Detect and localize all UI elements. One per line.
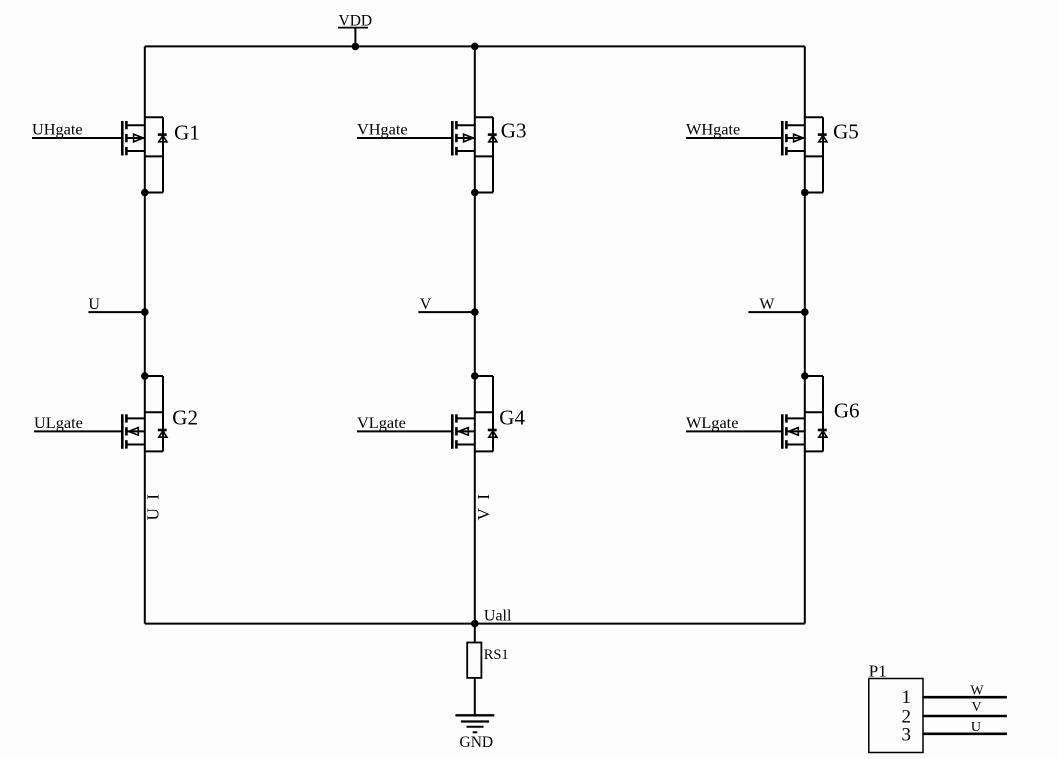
power VDD xyxy=(338,12,372,50)
svg-text:VLgate: VLgate xyxy=(357,413,406,432)
svg-text:V: V xyxy=(420,296,432,313)
node top rail / V column junction xyxy=(471,43,479,51)
transistor G3 xyxy=(452,117,497,196)
svg-text:ULgate: ULgate xyxy=(34,413,83,432)
svg-text:W: W xyxy=(759,296,775,313)
resistor RS1 xyxy=(467,643,481,678)
svg-text:G4: G4 xyxy=(499,405,525,429)
svg-text:U I: U I xyxy=(144,494,163,521)
wire RS1 to ground xyxy=(474,678,476,715)
connector P1 xyxy=(869,679,923,753)
wire Uall to RS1 xyxy=(474,624,476,643)
wire column U vertical xyxy=(144,46,146,623)
svg-text:G5: G5 xyxy=(833,119,859,143)
svg-text:VHgate: VHgate xyxy=(357,120,408,139)
svg-text:G3: G3 xyxy=(501,118,527,142)
wire bottom rail (Uall net) xyxy=(145,623,805,625)
svg-text:U: U xyxy=(971,720,981,735)
svg-text:WHgate: WHgate xyxy=(686,120,740,139)
wire VDD top rail xyxy=(145,45,805,47)
wire gate VLgate xyxy=(357,430,452,432)
wire column V vertical xyxy=(474,46,476,623)
node phase V junction xyxy=(471,308,479,316)
svg-text:WLgate: WLgate xyxy=(686,413,738,432)
svg-text:G1: G1 xyxy=(174,120,200,144)
svg-text:Uall: Uall xyxy=(484,607,512,624)
transistor G6 xyxy=(782,372,827,451)
svg-text:RS1: RS1 xyxy=(484,647,509,663)
node Uall junction xyxy=(471,620,479,628)
svg-text:G2: G2 xyxy=(172,405,198,429)
transistor G5 xyxy=(782,117,827,196)
wire gate VHgate xyxy=(357,137,452,139)
svg-text:1: 1 xyxy=(902,687,912,708)
wire column W vertical xyxy=(804,46,806,623)
wire gate ULgate xyxy=(34,430,122,432)
svg-text:3: 3 xyxy=(902,724,912,745)
wire pin 1 (W) xyxy=(923,696,1007,699)
node phase W junction xyxy=(801,308,809,316)
wire pin 2 (V) xyxy=(923,715,1007,718)
svg-text:U: U xyxy=(88,296,100,313)
svg-text:P1: P1 xyxy=(869,661,887,680)
wire phase U stub xyxy=(88,311,144,313)
svg-text:UHgate: UHgate xyxy=(32,120,83,139)
wire phase W stub xyxy=(748,311,804,313)
wire gate WLgate xyxy=(686,430,782,432)
svg-text:G6: G6 xyxy=(834,398,860,422)
wire pin 3 (U) xyxy=(923,732,1007,735)
node phase U junction xyxy=(141,308,149,316)
transistor G2 xyxy=(122,372,167,451)
svg-text:W: W xyxy=(970,683,984,698)
transistor G4 xyxy=(452,372,497,451)
wire gate UHgate xyxy=(32,137,122,139)
svg-text:V I: V I xyxy=(474,494,493,521)
svg-text:V: V xyxy=(972,700,982,715)
wire phase V stub xyxy=(418,311,474,313)
ground GND xyxy=(455,715,494,732)
wire gate WHgate xyxy=(686,137,782,139)
transistor G1 xyxy=(122,117,167,196)
svg-text:GND: GND xyxy=(460,734,494,751)
